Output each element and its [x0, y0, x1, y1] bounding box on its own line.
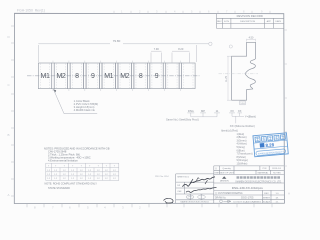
svg-text:FGH-1050 Rev(1): FGH-1050 Rev(1) — [17, 9, 45, 13]
svg-text:Y=(Blank): Y=(Blank) — [245, 116, 256, 119]
svg-text:ONE SIDE OF UNIT: ONE SIDE OF UNIT — [214, 172, 234, 174]
marker cell 3 — [70, 63, 83, 89]
profile view outline — [232, 42, 256, 100]
svg-text:DSG-130-XX-0.6A/pcs: DSG-130-XX-0.6A/pcs — [232, 186, 264, 190]
svg-text:PRO No.1354: PRO No.1354 — [155, 176, 169, 178]
svg-text:DO NOT SCALE DRAWING: DO NOT SCALE DRAWING — [234, 200, 262, 203]
svg-text:11.70: 11.70 — [225, 75, 228, 81]
svg-text:SHEET: SHEET — [263, 198, 271, 200]
svg-text:DRAW No.: DRAW No. — [215, 197, 227, 200]
title block signature area — [176, 174, 214, 204]
border ticks bottom — [27, 204, 272, 207]
svg-text:4.Environmental limitation: 4.Environmental limitation — [48, 159, 78, 163]
handwritten scribble bottom left — [164, 198, 174, 203]
svg-text:P/N: P/N — [263, 168, 267, 170]
marker cell 9 — [166, 63, 179, 89]
svg-text:MATERIAL: MATERIAL — [258, 171, 270, 174]
revision record table — [217, 14, 284, 29]
svg-text:2013-1-8: 2013-1-8 — [272, 168, 282, 170]
border ticks left — [11, 26, 14, 196]
divider 9 — [179, 61, 182, 91]
svg-text:DATE: DATE — [275, 20, 281, 23]
svg-text:A: A — [288, 192, 290, 196]
marker cell 1 — [38, 63, 51, 89]
svg-text:ECN: ECN — [224, 21, 229, 23]
svg-text:( ) CUSTOMER DRAWING: ( ) CUSTOMER DRAWING — [215, 192, 243, 195]
divider 5 — [115, 61, 118, 91]
svg-text:8.28: 8.28 — [265, 142, 275, 148]
svg-text:SHEET NO.1: SHEET NO.1 — [177, 176, 190, 178]
svg-text:SCALE: SCALE — [263, 200, 271, 203]
svg-text:DSG: DSG — [188, 109, 194, 113]
svg-text:Ident(s):1(Red): Ident(s):1(Red) — [221, 129, 238, 132]
svg-text:REVISION RECORD: REVISION RECORD — [237, 14, 263, 18]
svg-text:REC: REC — [217, 21, 222, 23]
svg-text:M1: M1 — [104, 73, 113, 80]
marker cell 7 — [134, 63, 147, 89]
projection symbol — [220, 200, 231, 203]
svg-text:NOTES: NOTES — [273, 172, 281, 174]
svg-text:APP: APP — [267, 20, 272, 23]
svg-text:DESCRIPTION: DESCRIPTION — [240, 21, 255, 23]
marker cell 5 — [102, 63, 115, 89]
svg-text:4.50: 4.50 — [249, 37, 254, 40]
marker cell 10 — [182, 63, 195, 89]
profile dim bottom — [240, 101, 245, 105]
svg-text:( ): ( ) — [215, 168, 217, 170]
svg-text:9: 9 — [155, 73, 159, 80]
profile centerline — [219, 73, 259, 75]
svg-text:XX=(Silicone Rubber): XX=(Silicone Rubber) — [230, 124, 255, 128]
svg-text:Quantity: Quantity — [223, 167, 232, 170]
svg-text:XIAMEN DEGSON ELECTRONICS: XIAMEN DEGSON ELECTRONICS — [180, 201, 209, 204]
sheet frame — [14, 13, 284, 203]
svg-text:NOTE: ROHS COMPLIANT STANDARD: NOTE: ROHS COMPLIANT STANDARD ONLY — [45, 182, 98, 185]
divider 6 — [131, 61, 134, 91]
svg-text:4.MARK:black ink: 4.MARK:black ink — [74, 108, 96, 112]
svg-text:79.80: 79.80 — [113, 39, 121, 43]
divider 7 — [147, 61, 150, 91]
svg-text:10(White): 10(White) — [237, 163, 248, 166]
svg-text:11: 11 — [216, 109, 219, 113]
svg-text:M2: M2 — [120, 73, 129, 80]
svg-text:9: 9 — [91, 73, 95, 80]
marker strip centerline — [27, 75, 200, 77]
dimension overall length — [38, 42, 212, 62]
svg-text:A: A — [8, 193, 10, 197]
marker cell 6 — [118, 63, 131, 89]
svg-text:XX: XX — [238, 109, 242, 113]
svg-text:B: B — [8, 133, 10, 137]
handwritten check — [197, 178, 200, 181]
svg-text:8.20: 8.20 — [178, 47, 184, 51]
svg-text:CHK: CHK — [177, 191, 182, 193]
profile surface symbol — [229, 45, 232, 48]
title block right group — [214, 166, 284, 203]
divider 1 — [52, 61, 55, 91]
svg-text:XIAMEN DEGSON ELECTRONICS CO.,: XIAMEN DEGSON ELECTRONICS CO.,LTD. — [235, 181, 282, 184]
marker cell 8 — [150, 63, 163, 89]
svg-text:MP: MP — [201, 109, 205, 113]
notes table — [46, 163, 119, 180]
svg-text:8: 8 — [75, 73, 79, 80]
profile dim 4.50 — [247, 39, 256, 42]
divider 8 — [163, 61, 166, 91]
divider 2 — [68, 61, 71, 91]
profile dim 11.70 — [227, 56, 231, 100]
svg-text:7.90: 7.90 — [154, 47, 160, 51]
svg-text:Same No.) Steel(Strip Prod.): Same No.) Steel(Strip Prod.) — [166, 118, 199, 122]
border ticks right — [284, 30, 287, 166]
svg-text:STATE STANDARD: STATE STANDARD — [48, 187, 70, 190]
handwritten note row3 — [186, 187, 217, 192]
divider 4 — [100, 61, 103, 91]
qc stamp blue — [253, 133, 288, 157]
marker cell 2 — [54, 63, 67, 89]
svg-text:DEGSON: DEGSON — [220, 181, 229, 183]
svg-text:M1: M1 — [41, 73, 50, 80]
svg-text:8: 8 — [139, 73, 143, 80]
handwritten signature row2 — [183, 177, 216, 187]
approval oval stamps — [186, 195, 194, 199]
svg-text:M2: M2 — [56, 73, 65, 80]
svg-text:DSG-1705: DSG-1705 — [241, 196, 254, 200]
marker cell 4 — [86, 63, 99, 89]
material note text — [74, 99, 99, 112]
company name chinese — [237, 176, 281, 178]
leader line — [53, 89, 97, 113]
dimension short pitch — [151, 51, 190, 62]
degson logo — [222, 176, 226, 179]
svg-text:XX: XX — [230, 109, 234, 113]
border ticks top — [114, 11, 270, 14]
svg-text:REV: REV — [264, 193, 269, 195]
divider 3 — [84, 61, 87, 91]
